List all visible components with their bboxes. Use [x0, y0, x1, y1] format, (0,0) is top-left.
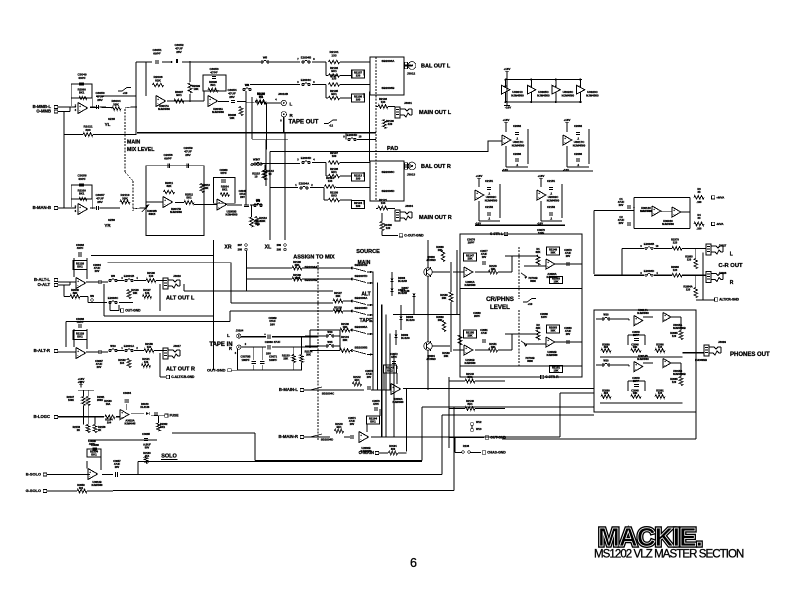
svg-text:C205869PF: C205869PF — [163, 153, 172, 161]
svg-text:+: + — [79, 104, 81, 108]
svg-text:BAL OUT L: BAL OUT L — [421, 64, 451, 70]
svg-text:C2151: C2151 — [547, 179, 556, 183]
svg-text:+: + — [653, 207, 655, 211]
svg-text:J3017: J3017 — [173, 344, 181, 348]
svg-text:C3071100PF: C3071100PF — [269, 355, 278, 362]
svg-text:SB2005A: SB2005A — [355, 325, 369, 329]
svg-text:+: + — [673, 208, 675, 212]
svg-text:C-STR-R: C-STR-R — [545, 375, 559, 379]
svg-text:CHAS-GND: CHAS-GND — [487, 451, 506, 455]
svg-text:SB2007D: SB2007D — [355, 274, 369, 278]
svg-text:C305347PF: C305347PF — [209, 67, 218, 75]
svg-text:-: - — [79, 108, 80, 112]
svg-text:U3013BNJM4560: U3013BNJM4560 — [92, 481, 104, 487]
svg-text:+16V: +16V — [476, 174, 483, 178]
svg-text:-: - — [564, 140, 565, 144]
svg-text:-: - — [547, 342, 548, 346]
svg-text:+: + — [664, 359, 666, 363]
svg-text:SB2005B: SB2005B — [355, 346, 369, 350]
svg-text:W6: W6 — [245, 83, 250, 87]
svg-text:PHONES OUT: PHONES OUT — [730, 352, 770, 358]
svg-text:.100: .100 — [697, 228, 702, 231]
svg-text:+: + — [538, 191, 540, 195]
svg-text:-MVA: -MVA — [716, 222, 724, 226]
svg-text:C306343PF: C306343PF — [76, 243, 85, 250]
svg-text:U2030ANJM4560: U2030ANJM4560 — [393, 398, 405, 404]
svg-text:C2062: C2062 — [513, 124, 522, 128]
svg-text:C2151: C2151 — [485, 179, 494, 183]
svg-text:E2003C: E2003C — [108, 296, 118, 300]
svg-text:U2002CNJM4560: U2002CNJM4560 — [547, 195, 560, 202]
svg-text:SB2004C: SB2004C — [322, 392, 334, 396]
svg-text:B-MAIN-L: B-MAIN-L — [279, 387, 299, 392]
svg-text:PHO80NB: PHO80NB — [695, 359, 707, 362]
svg-text:+: + — [664, 313, 666, 317]
svg-text:J3031: J3031 — [404, 101, 412, 105]
svg-text:J3012: J3012 — [407, 72, 416, 76]
svg-text:W9: W9 — [256, 199, 261, 203]
svg-text:E2004B: E2004B — [301, 56, 311, 60]
svg-text:-: - — [218, 205, 219, 209]
svg-text:+MVA: +MVA — [716, 196, 725, 200]
svg-text:E2004D: E2004D — [301, 156, 311, 160]
svg-text:+: + — [264, 332, 266, 336]
svg-text:U2050BNJM4560: U2050BNJM4560 — [226, 210, 238, 217]
svg-text:+16V: +16V — [503, 118, 510, 122]
svg-text:MAIN OUT L: MAIN OUT L — [419, 110, 452, 116]
svg-text:U3023CNJM4560: U3023CNJM4560 — [562, 90, 575, 97]
svg-text:OUT-GND: OUT-GND — [125, 309, 141, 313]
svg-text:-16V: -16V — [505, 106, 511, 110]
svg-text:J3009: J3009 — [718, 340, 726, 344]
svg-text:-: - — [635, 367, 636, 371]
svg-text:+: + — [121, 410, 123, 414]
svg-text:L: L — [290, 102, 293, 107]
svg-text:U2001ANJM4560: U2001ANJM4560 — [465, 281, 477, 287]
svg-text:U3004CNJM4560: U3004CNJM4560 — [511, 90, 524, 97]
svg-text:-: - — [547, 264, 548, 268]
svg-text:B-SOLO: B-SOLO — [26, 472, 41, 477]
svg-text:W8: W8 — [111, 274, 115, 278]
svg-text:-: - — [653, 211, 654, 215]
svg-text:+: + — [77, 279, 79, 283]
svg-text:BAL OUT R: BAL OUT R — [421, 164, 451, 170]
svg-text:A3023ANJM4045: A3023ANJM4045 — [125, 420, 137, 426]
svg-text:C2066: C2066 — [513, 152, 522, 156]
svg-text:L: L — [730, 252, 733, 258]
svg-text:+: + — [564, 136, 566, 140]
svg-text:+: + — [218, 200, 220, 204]
svg-text:.100: .100 — [697, 201, 702, 204]
svg-text:-: - — [465, 272, 466, 276]
svg-text:-: - — [77, 283, 78, 287]
svg-text:ALT OUT L: ALT OUT L — [166, 296, 195, 302]
svg-text:+: + — [635, 362, 637, 366]
svg-text:C-STR-L: C-STR-L — [490, 232, 503, 236]
svg-text:+: + — [465, 268, 467, 272]
svg-text:U2181BNJM4560: U2181BNJM4560 — [465, 359, 477, 365]
svg-text:-: - — [121, 415, 122, 419]
svg-text:ASSIGN TO MIX: ASSIGN TO MIX — [293, 255, 335, 261]
svg-text:E2001B: E2001B — [124, 274, 134, 278]
svg-text:+16V: +16V — [78, 380, 85, 384]
svg-text:U3023CNJM4560: U3023CNJM4560 — [586, 90, 599, 97]
svg-text:R: R — [730, 280, 734, 286]
svg-text:-: - — [664, 317, 665, 321]
svg-text:U3014CNJM4560: U3014CNJM4560 — [640, 206, 652, 213]
svg-text:+16V: +16V — [564, 118, 571, 122]
svg-text:LEVEL: LEVEL — [490, 304, 510, 311]
svg-text:O-MMB: O-MMB — [36, 109, 51, 114]
svg-text:C2062: C2062 — [574, 124, 583, 128]
svg-text:W9: W9 — [90, 295, 94, 298]
svg-text:-: - — [673, 212, 674, 216]
svg-text:287: 287 — [238, 243, 243, 247]
svg-text:XR: XR — [224, 245, 231, 251]
svg-text:C2152: C2152 — [547, 205, 556, 209]
svg-text:25V: 25V — [266, 351, 271, 355]
svg-text:R2167100K: R2167100K — [67, 396, 75, 402]
svg-text:E2004A: E2004A — [299, 182, 309, 186]
svg-text:TAPE OUT: TAPE OUT — [289, 120, 319, 126]
svg-text:-: - — [635, 321, 636, 325]
svg-text:-: - — [89, 474, 90, 478]
svg-text:SB2006A: SB2006A — [355, 296, 369, 300]
svg-text:J3104: J3104 — [236, 329, 244, 333]
svg-text:C2152: C2152 — [485, 205, 494, 209]
svg-text:0Z56: 0Z56 — [108, 218, 115, 222]
svg-text:C-R OUT: C-R OUT — [718, 263, 743, 269]
svg-text:C306643PF: C306643PF — [76, 317, 85, 324]
svg-text:SB2003B: SB2003B — [382, 86, 396, 90]
svg-text:E2004D: E2004D — [347, 133, 357, 137]
svg-text:D3040DL4146: D3040DL4146 — [140, 403, 150, 409]
svg-text:289: 289 — [277, 243, 282, 247]
svg-text:C307620PF: C307620PF — [467, 238, 476, 245]
svg-text:+: + — [89, 470, 91, 474]
svg-text:J3034: J3034 — [405, 204, 413, 208]
svg-text:+: + — [503, 136, 505, 140]
svg-text:O-MAIN: O-MAIN — [359, 450, 374, 455]
svg-text:J3013: J3013 — [407, 173, 416, 177]
svg-text:C3064: C3064 — [123, 391, 132, 395]
svg-text:E2003D: E2003D — [644, 269, 654, 273]
svg-text:CR/PHNS: CR/PHNS — [486, 296, 514, 303]
svg-text:SB2003D: SB2003D — [382, 189, 396, 193]
svg-text:SB2007B: SB2007B — [355, 263, 369, 267]
svg-text:+: + — [77, 349, 79, 353]
svg-text:O-ALT: O-ALT — [38, 282, 51, 287]
svg-text:+: + — [79, 205, 81, 209]
svg-text:SB2003C: SB2003C — [382, 170, 396, 174]
svg-text:YR: YR — [104, 223, 111, 228]
svg-text:J3008: J3008 — [719, 271, 727, 275]
svg-text:U3014BNJM4560: U3014BNJM4560 — [637, 354, 649, 361]
svg-text:FUSE: FUSE — [170, 414, 180, 418]
svg-text:+10: +10 — [123, 91, 128, 95]
svg-text:+: + — [360, 433, 362, 437]
svg-text:U2002CNJM4560: U2002CNJM4560 — [485, 195, 498, 202]
svg-text:B-MAIN-R: B-MAIN-R — [278, 434, 298, 439]
svg-text:W10: W10 — [110, 344, 116, 348]
svg-text:-: - — [503, 140, 504, 144]
svg-text:C304943PF: C304943PF — [77, 73, 86, 81]
svg-text:MAIN: MAIN — [127, 140, 141, 146]
svg-text:ALT OUT R: ALT OUT R — [166, 367, 195, 373]
svg-text:-: - — [77, 353, 78, 357]
svg-text:-: - — [209, 101, 210, 105]
svg-text:-: - — [360, 437, 361, 441]
svg-text:B-ALT-R: B-ALT-R — [34, 348, 50, 353]
svg-text:C-ALT/CR-GND: C-ALT/CR-GND — [171, 375, 195, 379]
svg-text:C2066: C2066 — [574, 152, 583, 156]
svg-text:C3065: C3065 — [142, 432, 150, 436]
svg-text:ALT/CR-GND: ALT/CR-GND — [719, 298, 739, 302]
svg-text:U3017CNJM4560: U3017CNJM4560 — [512, 140, 525, 147]
svg-text:W15: W15 — [327, 341, 333, 344]
svg-text:MS1202 VLZ MASTER SECTION: MS1202 VLZ MASTER SECTION — [594, 549, 744, 561]
svg-text:C3070B100PF: C3070B100PF — [240, 355, 250, 362]
svg-text:C-OUT-GND: C-OUT-GND — [404, 234, 424, 238]
svg-text:-: - — [476, 195, 477, 199]
svg-text:E2004C: E2004C — [301, 78, 311, 82]
svg-text:E2003B: E2003B — [644, 242, 654, 246]
svg-text:-12: -12 — [329, 124, 333, 128]
svg-text:290: 290 — [277, 248, 282, 252]
svg-text:+: + — [547, 260, 549, 264]
svg-text:PAD: PAD — [387, 146, 398, 152]
svg-text:6: 6 — [410, 556, 417, 570]
svg-text:-: - — [538, 195, 539, 199]
svg-text:C305643PF: C305643PF — [77, 174, 86, 182]
svg-text:W10: W10 — [603, 314, 609, 317]
svg-text:U3017CNJM4560: U3017CNJM4560 — [573, 140, 586, 147]
svg-text:MIX LEVEL: MIX LEVEL — [127, 147, 155, 153]
svg-text:MAIN OUT R: MAIN OUT R — [419, 215, 452, 221]
svg-text:W13: W13 — [476, 427, 482, 431]
svg-text:-: - — [465, 350, 466, 354]
svg-text:U2032BNJM4560: U2032BNJM4560 — [547, 351, 559, 357]
svg-text:E2001A: E2001A — [124, 344, 134, 348]
svg-text:+: + — [476, 191, 478, 195]
svg-text:U3047ANJM4560: U3047ANJM4560 — [158, 104, 170, 111]
svg-text:U3014ANJM4560: U3014ANJM4560 — [637, 308, 649, 315]
svg-text:-: - — [79, 209, 80, 213]
svg-text:+: + — [157, 97, 159, 101]
svg-text:+10: +10 — [528, 302, 533, 306]
svg-text:XL: XL — [265, 245, 272, 251]
svg-text:+: + — [209, 97, 211, 101]
svg-text:G-SOLO: G-SOLO — [26, 488, 41, 493]
svg-text:U3004CNJM4560: U3004CNJM4560 — [662, 219, 674, 226]
svg-text:+: + — [392, 385, 394, 389]
svg-text:-: - — [392, 389, 393, 393]
svg-text:W16: W16 — [327, 331, 333, 334]
svg-text:SB2004D: SB2004D — [321, 438, 333, 442]
svg-text:B-LOGC: B-LOGC — [33, 414, 50, 419]
svg-text:+: + — [465, 346, 467, 350]
svg-text:+16V: +16V — [504, 67, 511, 71]
svg-text:C306047PF: C306047PF — [219, 168, 228, 175]
svg-text:B-MAN-B: B-MAN-B — [33, 205, 51, 210]
svg-text:0Z35: 0Z35 — [108, 117, 115, 121]
svg-text:SOLO: SOLO — [161, 454, 177, 460]
svg-text:SB2003A: SB2003A — [382, 59, 396, 63]
svg-text:+: + — [164, 198, 166, 202]
svg-text:C2069 47UF: C2069 47UF — [265, 340, 281, 344]
svg-text:+: + — [635, 316, 637, 320]
svg-text:U3005CNJM4560: U3005CNJM4560 — [537, 90, 550, 97]
svg-text:+16V: +16V — [538, 174, 545, 178]
svg-text:R2047BNJM4560: R2047BNJM4560 — [170, 207, 182, 214]
svg-text:R138: R138 — [463, 444, 470, 448]
svg-text:SB2006D: SB2006D — [355, 306, 369, 310]
svg-text:J3010B: J3010B — [278, 92, 288, 96]
svg-text:-: - — [664, 363, 665, 367]
svg-text:W7: W7 — [256, 158, 261, 162]
svg-text:SOURCE: SOURCE — [356, 249, 380, 255]
svg-text:W12: W12 — [476, 420, 482, 424]
svg-text:L: L — [227, 333, 230, 338]
svg-text:J3016: J3016 — [173, 274, 181, 278]
svg-text:+: + — [547, 338, 549, 342]
svg-text:U2048ANJM4560: U2048ANJM4560 — [212, 107, 224, 114]
svg-text:W5: W5 — [263, 56, 268, 60]
svg-text:OUT-GND: OUT-GND — [207, 368, 226, 373]
svg-text:-: - — [164, 202, 165, 206]
svg-text:288: 288 — [238, 248, 243, 252]
svg-text:W10: W10 — [603, 360, 609, 363]
svg-text:J3027: J3027 — [719, 244, 727, 248]
svg-text:C305169PF: C305169PF — [152, 48, 161, 56]
svg-text:TAPE: TAPE — [360, 318, 374, 324]
svg-text:YL: YL — [105, 122, 111, 127]
svg-text:MACKIE.: MACKIE. — [598, 522, 702, 552]
